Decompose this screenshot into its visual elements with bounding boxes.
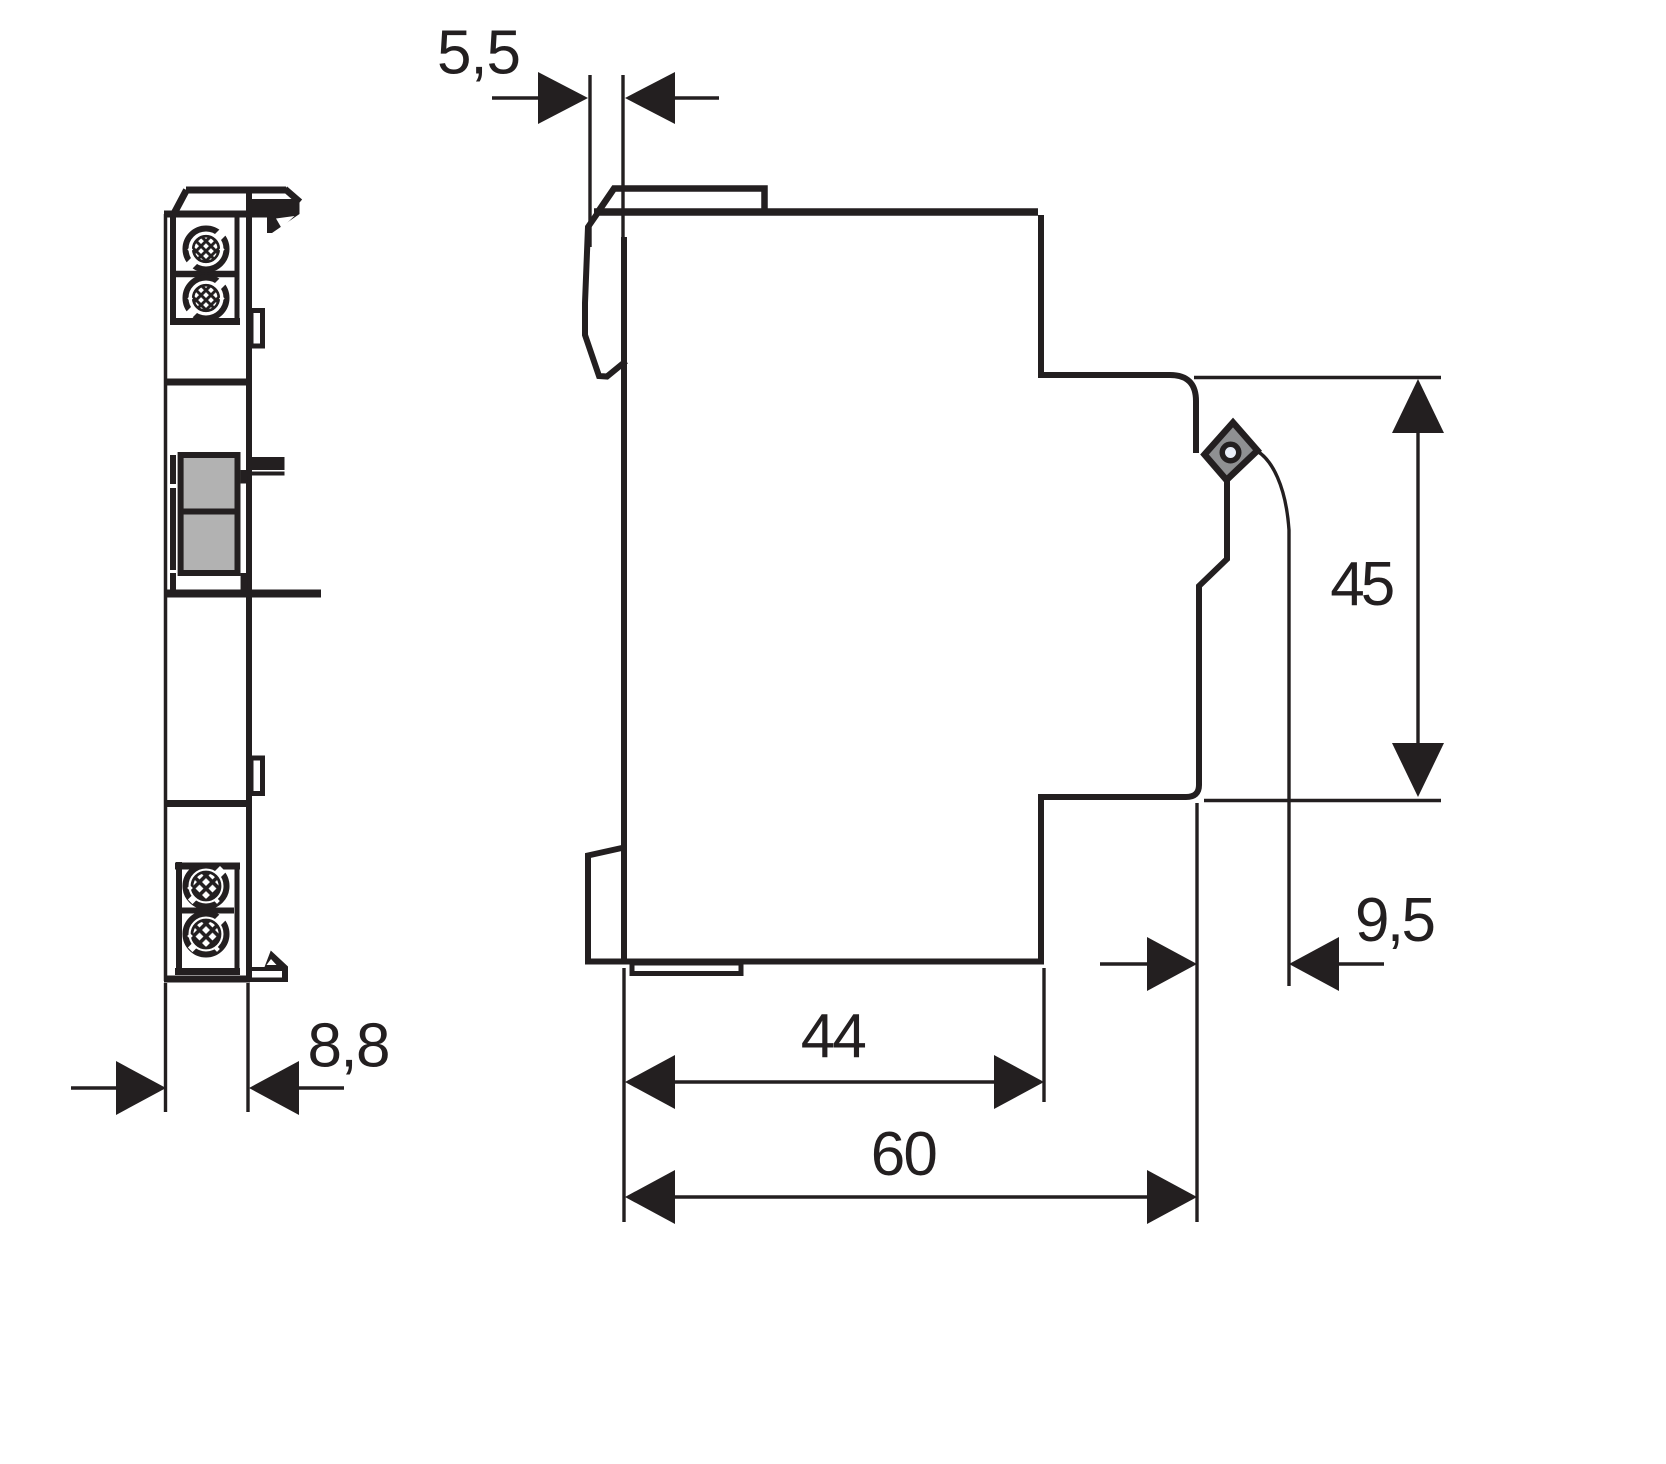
svg-text:45: 45 xyxy=(1330,550,1395,619)
svg-text:9,5: 9,5 xyxy=(1355,886,1436,955)
svg-text:5,5: 5,5 xyxy=(437,19,521,88)
svg-text:60: 60 xyxy=(871,1120,938,1189)
svg-text:8,8: 8,8 xyxy=(308,1012,391,1081)
svg-text:44: 44 xyxy=(801,1002,867,1071)
